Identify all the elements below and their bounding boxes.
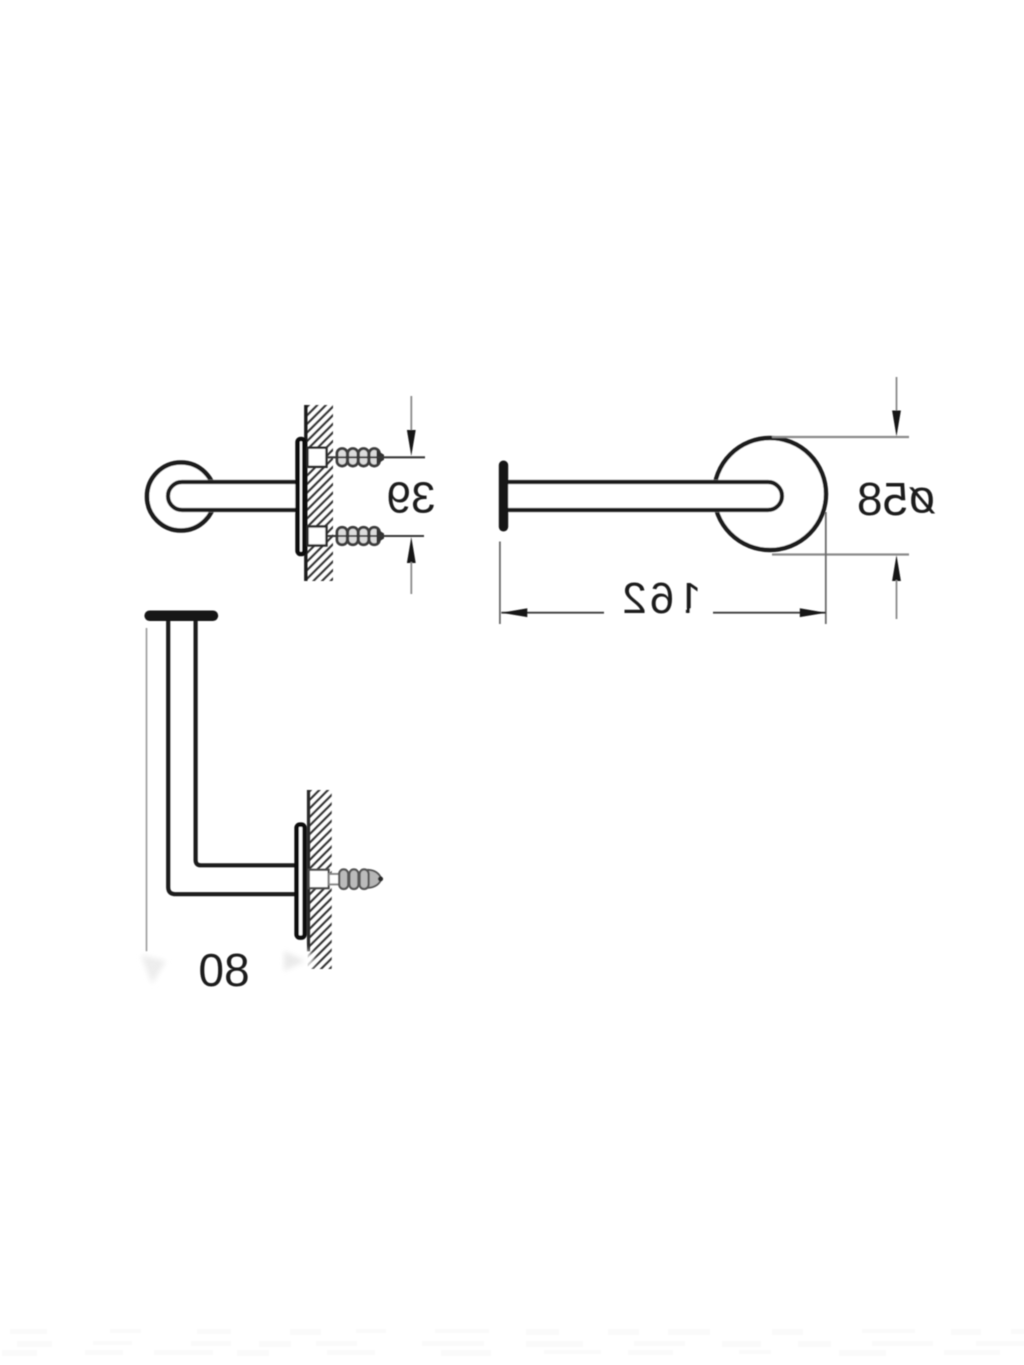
svg-text:80: 80 [198, 944, 249, 996]
svg-text:39: 39 [387, 474, 436, 523]
svg-text:ø58: ø58 [857, 471, 936, 526]
svg-text:162: 162 [619, 574, 701, 623]
